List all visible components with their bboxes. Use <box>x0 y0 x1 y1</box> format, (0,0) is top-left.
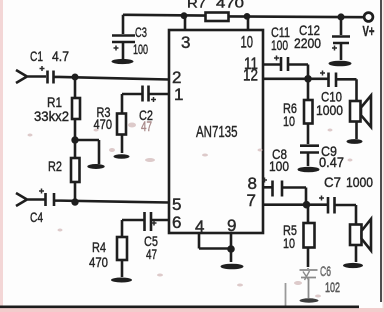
svg-text:7: 7 <box>247 191 256 210</box>
svg-text:5: 5 <box>172 195 181 214</box>
svg-text:0.47: 0.47 <box>319 154 344 170</box>
svg-text:3: 3 <box>181 33 190 52</box>
svg-text:C7: C7 <box>324 174 341 190</box>
svg-text:470: 470 <box>89 254 108 270</box>
svg-text:33kx2: 33kx2 <box>34 108 69 124</box>
svg-text:C6: C6 <box>320 263 331 279</box>
svg-text:2200: 2200 <box>294 35 321 51</box>
svg-text:9: 9 <box>227 216 236 235</box>
svg-text:10: 10 <box>241 33 254 52</box>
svg-text:C1: C1 <box>30 48 43 64</box>
svg-text:470: 470 <box>216 0 244 11</box>
svg-text:100: 100 <box>269 158 289 174</box>
svg-text:1: 1 <box>174 85 183 104</box>
svg-text:4.7: 4.7 <box>52 48 69 64</box>
svg-text:R4: R4 <box>92 239 106 255</box>
svg-text:100: 100 <box>133 41 148 57</box>
svg-text:1000: 1000 <box>316 102 343 118</box>
svg-text:12: 12 <box>243 66 258 85</box>
svg-text:C3: C3 <box>135 24 147 40</box>
svg-text:102: 102 <box>325 279 340 295</box>
svg-text:10: 10 <box>283 235 295 251</box>
svg-text:4: 4 <box>195 217 204 236</box>
svg-text:AN7135: AN7135 <box>196 124 238 141</box>
svg-text:R2: R2 <box>48 158 62 174</box>
svg-text:V+: V+ <box>363 23 375 40</box>
svg-text:47: 47 <box>141 118 152 134</box>
svg-text:R7: R7 <box>187 0 206 11</box>
svg-text:6: 6 <box>172 213 181 232</box>
svg-text:C4: C4 <box>30 209 43 225</box>
svg-text:47: 47 <box>146 246 157 262</box>
svg-text:100: 100 <box>271 37 288 53</box>
svg-text:10: 10 <box>283 113 295 129</box>
svg-text:1000: 1000 <box>346 174 373 190</box>
